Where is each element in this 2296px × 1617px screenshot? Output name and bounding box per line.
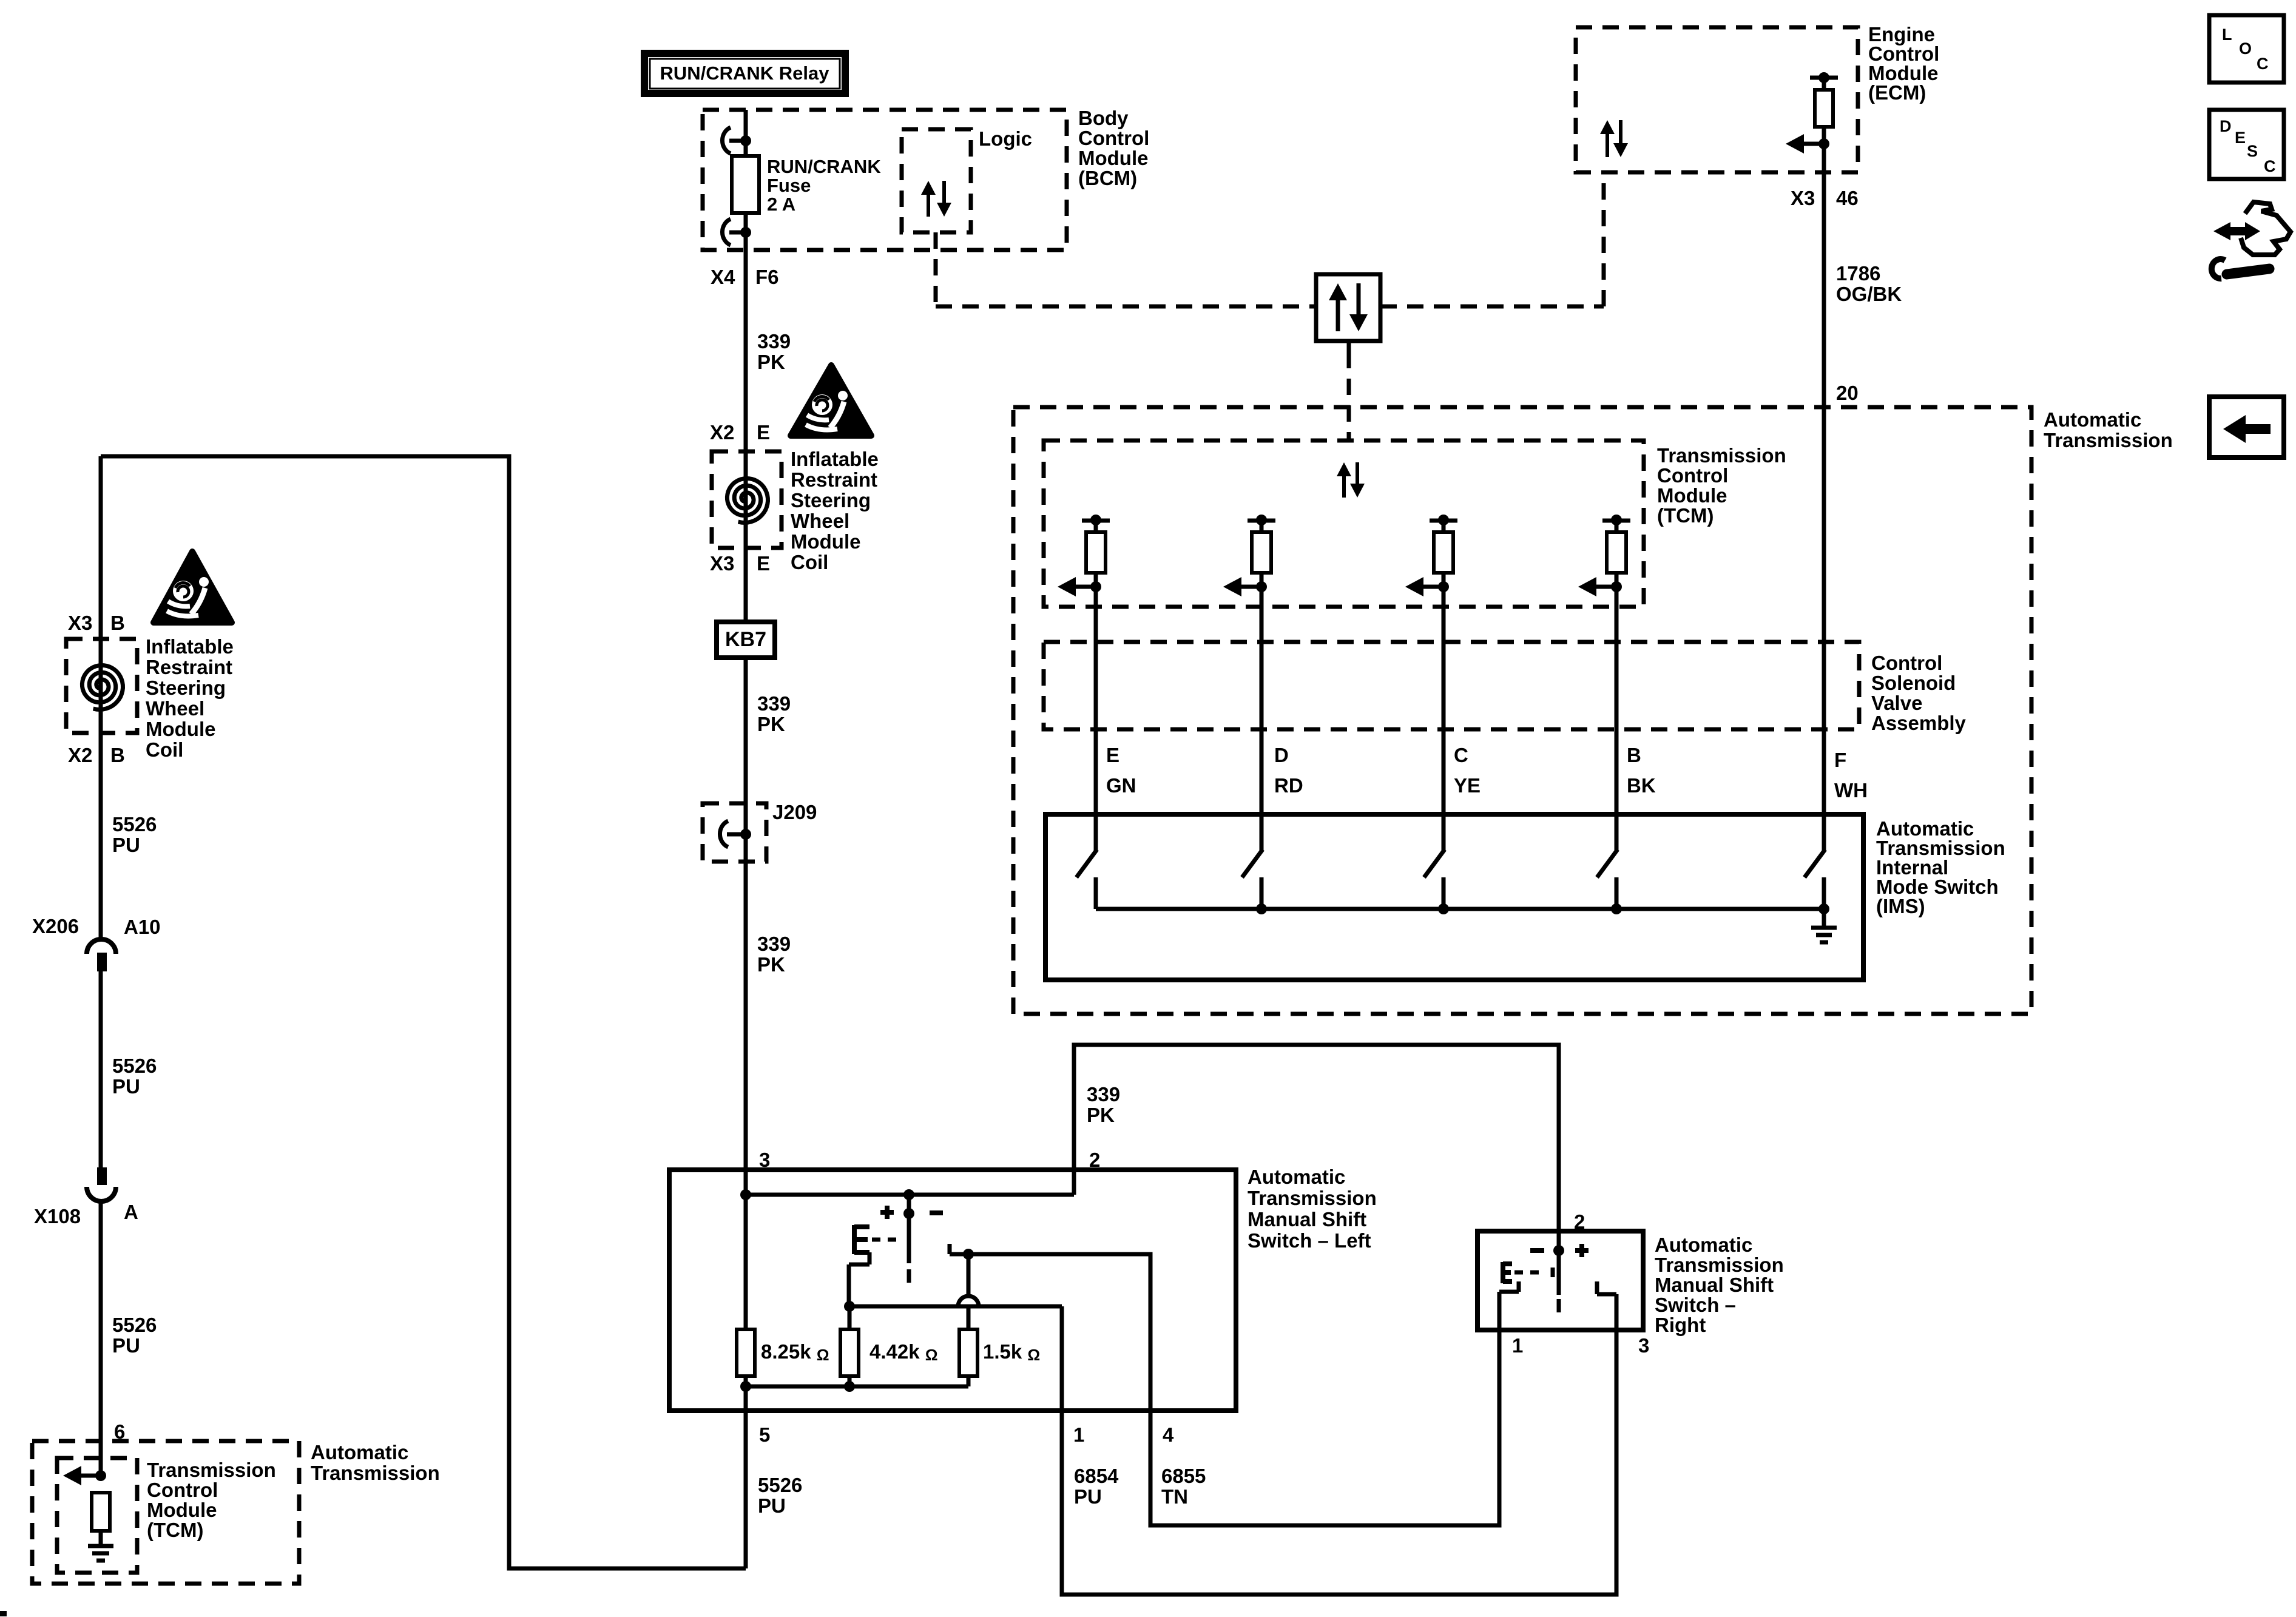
svg-text:PU: PU (758, 1494, 786, 1517)
svg-text:GN: GN (1106, 774, 1136, 797)
svg-text:RUN/CRANK Relay: RUN/CRANK Relay (660, 62, 829, 84)
svg-text:Module: Module (147, 1499, 217, 1521)
svg-text:A: A (124, 1201, 138, 1223)
svg-text:O: O (2239, 39, 2252, 58)
svg-text:Assembly: Assembly (1871, 712, 1967, 734)
svg-text:339: 339 (1087, 1083, 1120, 1106)
svg-text:3: 3 (759, 1149, 770, 1171)
svg-text:E: E (2235, 129, 2246, 147)
svg-text:Switch – Left: Switch – Left (1248, 1229, 1371, 1252)
svg-text:A10: A10 (124, 916, 161, 938)
svg-text:4: 4 (1163, 1423, 1174, 1446)
svg-text:(IMS): (IMS) (1876, 895, 1925, 917)
svg-text:Transmission: Transmission (1248, 1187, 1377, 1209)
svg-text:1: 1 (1512, 1334, 1523, 1357)
svg-text:Control: Control (147, 1479, 218, 1501)
svg-text:PU: PU (1074, 1485, 1102, 1508)
svg-text:Control: Control (1657, 464, 1728, 487)
svg-text:Module: Module (1657, 484, 1727, 507)
svg-text:YE: YE (1454, 774, 1481, 797)
svg-text:X2: X2 (68, 744, 92, 766)
svg-text:5526: 5526 (112, 1055, 157, 1077)
svg-text:X206: X206 (32, 915, 79, 937)
svg-text:PU: PU (112, 834, 140, 856)
svg-text:D: D (1274, 744, 1289, 766)
svg-text:B: B (1627, 744, 1641, 766)
svg-text:Transmission: Transmission (1655, 1254, 1784, 1276)
svg-text:B: B (110, 744, 125, 766)
svg-text:Restraint: Restraint (146, 656, 232, 678)
svg-text:Automatic: Automatic (311, 1441, 408, 1463)
svg-text:5526: 5526 (758, 1474, 802, 1496)
svg-text:Fuse: Fuse (767, 175, 811, 196)
svg-text:BK: BK (1627, 774, 1656, 797)
svg-text:X3: X3 (710, 552, 734, 575)
svg-text:46: 46 (1836, 187, 1859, 209)
svg-text:Steering: Steering (791, 489, 871, 511)
svg-text:Coil: Coil (146, 738, 183, 761)
svg-text:X108: X108 (34, 1205, 81, 1227)
svg-text:Restraint: Restraint (791, 468, 877, 491)
svg-text:Inflatable: Inflatable (146, 635, 234, 658)
svg-text:B: B (110, 612, 125, 634)
svg-text:Wheel: Wheel (146, 697, 204, 720)
svg-text:C: C (1454, 744, 1468, 766)
svg-text:339: 339 (757, 692, 791, 715)
svg-text:Coil: Coil (791, 551, 828, 573)
svg-text:X2: X2 (710, 421, 734, 444)
svg-text:Module: Module (146, 718, 215, 740)
svg-text:Manual Shift: Manual Shift (1655, 1274, 1774, 1296)
svg-text:6855: 6855 (1161, 1465, 1206, 1487)
svg-text:Automatic: Automatic (1655, 1234, 1752, 1256)
svg-text:Module: Module (791, 530, 860, 553)
svg-text:2: 2 (1089, 1149, 1100, 1171)
svg-text:Logic: Logic (979, 127, 1032, 150)
svg-text:J209: J209 (772, 801, 817, 823)
svg-text:Right: Right (1655, 1314, 1706, 1336)
svg-text:Control: Control (1871, 652, 1942, 674)
svg-text:X4: X4 (711, 266, 735, 288)
svg-text:Valve: Valve (1871, 692, 1922, 714)
svg-text:S: S (2247, 142, 2258, 160)
svg-text:(TCM): (TCM) (147, 1519, 203, 1541)
svg-text:C: C (2264, 157, 2276, 175)
svg-text:PK: PK (757, 953, 785, 976)
svg-text:RD: RD (1274, 774, 1303, 797)
svg-text:5526: 5526 (112, 813, 157, 836)
svg-text:L: L (2222, 25, 2232, 44)
svg-text:Transmission: Transmission (2044, 429, 2173, 451)
svg-text:F: F (1834, 749, 1846, 771)
svg-text:Solenoid: Solenoid (1871, 672, 1956, 694)
svg-text:OG/BK: OG/BK (1836, 283, 1902, 305)
svg-text:(TCM): (TCM) (1657, 504, 1714, 527)
svg-text:E: E (1106, 744, 1119, 766)
svg-text:Wheel: Wheel (791, 510, 849, 532)
svg-text:(BCM): (BCM) (1078, 167, 1137, 189)
svg-text:X3: X3 (1791, 187, 1815, 209)
svg-text:D: D (2220, 117, 2232, 135)
svg-text:3: 3 (1638, 1334, 1649, 1357)
svg-text:Inflatable: Inflatable (791, 448, 879, 470)
svg-text:339: 339 (757, 933, 791, 955)
svg-text:1: 1 (1073, 1423, 1084, 1446)
svg-text:X3: X3 (68, 612, 92, 634)
svg-text:PU: PU (112, 1075, 140, 1098)
svg-text:PK: PK (757, 351, 785, 373)
svg-text:WH: WH (1834, 779, 1868, 802)
svg-text:E: E (757, 421, 770, 444)
svg-text:KB7: KB7 (725, 628, 766, 651)
svg-text:F6: F6 (755, 266, 779, 288)
svg-text:RUN/CRANK: RUN/CRANK (767, 156, 881, 177)
svg-text:Automatic: Automatic (2044, 408, 2141, 431)
svg-text:PK: PK (1087, 1104, 1115, 1126)
svg-text:Transmission: Transmission (311, 1462, 440, 1484)
svg-text:6854: 6854 (1074, 1465, 1119, 1487)
svg-text:Manual Shift: Manual Shift (1248, 1208, 1366, 1230)
svg-text:E: E (757, 552, 770, 575)
svg-text:C: C (2257, 55, 2269, 73)
svg-text:Transmission: Transmission (1657, 444, 1786, 467)
svg-text:Transmission: Transmission (147, 1459, 276, 1481)
svg-text:Automatic: Automatic (1248, 1166, 1345, 1188)
svg-text:5526: 5526 (112, 1314, 157, 1336)
svg-text:Body: Body (1078, 107, 1129, 129)
svg-text:Steering: Steering (146, 677, 226, 699)
svg-text:PU: PU (112, 1334, 140, 1357)
svg-text:20: 20 (1836, 382, 1859, 404)
svg-text:Switch –: Switch – (1655, 1294, 1736, 1316)
svg-text:1786: 1786 (1836, 262, 1880, 285)
svg-text:2: 2 (1574, 1210, 1585, 1233)
svg-text:PK: PK (757, 713, 785, 735)
svg-text:2 A: 2 A (767, 194, 795, 215)
svg-text:5: 5 (759, 1423, 770, 1446)
svg-text:Module: Module (1078, 147, 1148, 169)
svg-text:339: 339 (757, 330, 791, 353)
svg-text:(ECM): (ECM) (1868, 81, 1926, 104)
svg-text:TN: TN (1161, 1485, 1188, 1508)
svg-text:Control: Control (1078, 127, 1149, 149)
